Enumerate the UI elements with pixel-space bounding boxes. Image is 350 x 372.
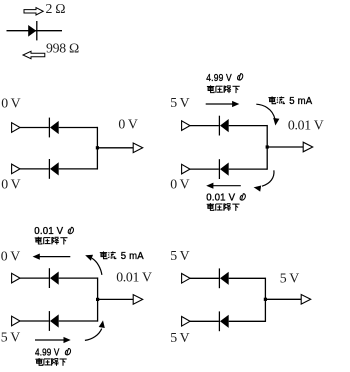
circuit 2 (in 5V,0V out 0.01V): wire diode D1 to junction — [229, 125, 268, 127]
circuit 2 (in 5V,0V out 0.01V): input buffer 2 — [182, 164, 190, 174]
svg-text:5 V: 5 V — [170, 248, 189, 263]
circuit 3 (in 0V,5V out 0.01V): output buffer — [133, 295, 143, 305]
circuit 3 annotation: 0.01V-drop arrow (points left) — [33, 254, 71, 260]
circuit 1 (in 0V,0V out 0V): wire diode D2 to junction — [59, 168, 98, 170]
circuit 3 annotation: 4.99V-drop arrow (points right) — [35, 337, 71, 343]
legend: forward direction open arrow — [24, 8, 43, 15]
svg-text:0 V: 0 V — [118, 117, 137, 132]
svg-text:4.99 V: 4.99 V — [35, 346, 60, 358]
circuit 4 (in 5V,5V out 5V): diode D1 — [219, 268, 228, 288]
circuit 1 (in 0V,0V out 0V): junction node dot — [96, 146, 99, 149]
svg-text:998 Ω: 998 Ω — [46, 41, 79, 56]
circuit 1 (in 0V,0V out 0V): diode D2 — [49, 159, 58, 179]
circuit 3 (in 0V,5V out 0.01V): diode D2 — [49, 311, 58, 331]
circuit 2 (in 5V,0V out 0.01V): input buffer 1 — [182, 121, 190, 131]
circuit 2 (in 5V,0V out 0.01V): diode D2 — [219, 159, 228, 179]
circuit 3 annotation text: 電流 5 mA — [100, 250, 144, 262]
circuit 1 (in 0V,0V out 0V): junction vertical wire — [96, 127, 98, 170]
svg-text:0 V: 0 V — [1, 95, 20, 110]
circuit 3 (in 0V,5V out 0.01V): wire diode D1 to junction — [59, 277, 98, 279]
svg-text:5 mA: 5 mA — [289, 95, 312, 107]
circuit 3 (in 0V,5V out 0.01V): input buffer 1 — [12, 273, 20, 283]
svg-text:5 V: 5 V — [1, 330, 20, 345]
circuit 1 (in 0V,0V out 0V): input buffer 1 — [12, 123, 20, 133]
circuit 3 annotation: current curve arrow into junction (points up) — [85, 320, 105, 340]
svg-text:5 V: 5 V — [280, 271, 299, 286]
circuit 1 (in 0V,0V out 0V): wire junction to output buffer — [97, 147, 133, 149]
circuit 4 (in 5V,5V out 5V): input buffer 1 — [182, 274, 190, 284]
svg-text:0.01 V: 0.01 V — [206, 192, 235, 204]
svg-text:5 mA: 5 mA — [121, 250, 144, 262]
circuit 3 (in 0V,5V out 0.01V): wire diode D2 to junction — [59, 320, 98, 322]
circuit 4 (in 5V,5V out 5V): wire junction to output buffer — [265, 298, 301, 300]
circuit 2 annotation text: 電流 5 mA — [268, 95, 312, 107]
circuit 2 (in 5V,0V out 0.01V): wire buffer 2 to diode D2 — [190, 168, 219, 170]
circuit 2 (in 5V,0V out 0.01V): diode D1 — [219, 116, 228, 136]
circuit 1 (in 0V,0V out 0V): input buffer 2 — [12, 164, 20, 174]
circuit 3 (in 0V,5V out 0.01V): wire buffer 2 to diode D2 — [20, 320, 49, 322]
circuit 4 (in 5V,5V out 5V): diode D2 — [219, 311, 228, 331]
circuit 1 (in 0V,0V out 0V): wire diode D1 to junction — [59, 127, 98, 129]
legend: reverse direction open arrow — [23, 51, 45, 58]
svg-text:0.01 V: 0.01 V — [116, 270, 152, 285]
svg-text:0.01 V: 0.01 V — [34, 225, 63, 237]
circuit 2 annotation: current curve arrow out of junction (points left) — [254, 170, 274, 191]
svg-text:5 V: 5 V — [170, 95, 189, 110]
circuit 3 annotation: current curve arrow out of junction (points up-left) — [85, 255, 102, 275]
circuit 2 annotation text: 4.99 V の — [206, 72, 243, 84]
circuit 2 (in 5V,0V out 0.01V): wire diode D2 to junction — [229, 168, 268, 170]
circuit 2 annotation text: 電圧降下 (line 2) — [207, 85, 240, 93]
svg-text:0 V: 0 V — [170, 177, 189, 192]
circuit 2 (in 5V,0V out 0.01V): junction node dot — [266, 145, 269, 148]
circuit 3 annotation text: 電圧降下 (line 2) — [35, 237, 68, 245]
circuit 1 (in 0V,0V out 0V): diode D1 — [49, 118, 58, 138]
svg-text:0 V: 0 V — [1, 248, 20, 263]
circuit 1 (in 0V,0V out 0V): output buffer — [133, 143, 143, 153]
circuit 3 (in 0V,5V out 0.01V): wire buffer 1 to diode D1 — [20, 277, 49, 279]
circuit 2 annotation text: 電圧降下 (line 2) — [207, 203, 240, 211]
circuit 2 annotation text: 0.01 V の — [206, 192, 245, 204]
legend diode symbol — [7, 21, 63, 40]
svg-text:0.01 V: 0.01 V — [288, 117, 324, 132]
circuit 1 (in 0V,0V out 0V): wire buffer 1 to diode D1 — [20, 127, 49, 129]
circuit 3 (in 0V,5V out 0.01V): wire junction to output buffer — [98, 298, 134, 300]
svg-text:5 V: 5 V — [170, 330, 189, 345]
circuit 4 (in 5V,5V out 5V): output buffer — [301, 295, 311, 305]
circuit 4 (in 5V,5V out 5V): junction node dot — [264, 298, 267, 301]
circuit 3 annotation text: 0.01 V の — [34, 225, 73, 237]
circuit 1 (in 0V,0V out 0V): wire buffer 2 to diode D2 — [20, 168, 49, 170]
circuit 4 (in 5V,5V out 5V): wire buffer 2 to diode D2 — [190, 320, 219, 322]
circuit 2 (in 5V,0V out 0.01V): wire junction to output buffer — [267, 146, 303, 148]
circuit 4 (in 5V,5V out 5V): wire diode D2 to junction — [229, 320, 266, 322]
circuit 2 annotation: 0.01V-drop arrow (points left) — [206, 183, 241, 189]
circuit 4 (in 5V,5V out 5V): input buffer 2 — [182, 317, 190, 327]
svg-text:4.99 V: 4.99 V — [206, 72, 232, 84]
svg-text:2 Ω: 2 Ω — [46, 1, 66, 16]
circuit 3 annotation text: 電圧降下 (line 2) — [35, 358, 66, 366]
svg-text:0 V: 0 V — [1, 176, 20, 191]
circuit 3 (in 0V,5V out 0.01V): junction vertical wire — [97, 277, 99, 321]
circuit 3 annotation text: 4.99 V の — [35, 346, 71, 358]
circuit 2 (in 5V,0V out 0.01V): junction vertical wire — [266, 125, 268, 170]
circuit 4 (in 5V,5V out 5V): junction vertical wire — [264, 278, 266, 322]
circuit 4 (in 5V,5V out 5V): wire buffer 1 to diode D1 — [190, 277, 219, 279]
circuit 3 (in 0V,5V out 0.01V): junction node dot — [96, 298, 99, 301]
circuit 2 annotation: 4.99V-drop arrow (points right) — [206, 101, 240, 107]
circuit 3 (in 0V,5V out 0.01V): input buffer 2 — [12, 316, 20, 326]
circuit 2 (in 5V,0V out 0.01V): wire buffer 1 to diode D1 — [190, 125, 219, 127]
circuit 2 annotation: current curve arrow into junction (points down) — [256, 104, 279, 125]
circuit 3 (in 0V,5V out 0.01V): diode D1 — [49, 268, 58, 288]
circuit 4 (in 5V,5V out 5V): wire diode D1 to junction — [229, 277, 266, 279]
circuit 2 (in 5V,0V out 0.01V): output buffer — [303, 142, 313, 152]
